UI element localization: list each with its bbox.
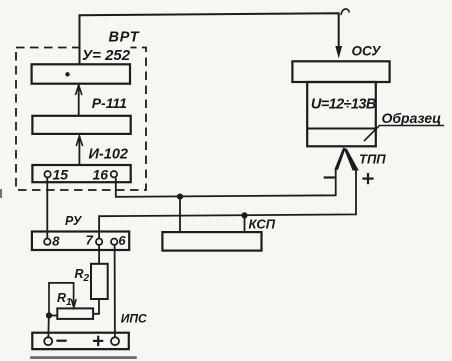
svg-text:7: 7 (86, 233, 94, 248)
thermocouple TPP left electrode (334, 148, 345, 170)
arrowhead into OCY (335, 46, 342, 59)
leader line for Образец (364, 126, 444, 142)
terminal 16 (111, 171, 117, 177)
svg-text:И-102: И-102 (89, 147, 128, 163)
scan smudge bottom (30, 356, 137, 359)
svg-text:16: 16 (93, 167, 109, 183)
wire arrow И-102 to P-111 (78, 136, 80, 165)
wire node B to KCP (244, 215, 246, 232)
wire R2 to R1 (93, 299, 99, 314)
svg-text:Образец: Образец (382, 110, 442, 126)
wire 16 to TPP minus leg (116, 170, 336, 197)
svg-text:КСП: КСП (249, 217, 276, 232)
block РУ (32, 232, 129, 251)
wire 15 to РУ 8 (46, 178, 48, 238)
wire РУ 7 to R2 (98, 245, 100, 263)
svg-text:Р-111: Р-111 (92, 95, 127, 111)
terminal 6 (111, 239, 117, 245)
wire node A to KCP (179, 197, 181, 233)
block P-111 (32, 116, 130, 134)
thermocouple TPP right electrode (343, 148, 358, 171)
block KCP recorder (162, 232, 261, 251)
scan tick left edge (0, 189, 2, 198)
wiper arm of R1 (49, 283, 74, 316)
wire РУ 7 to TPP plus leg (99, 170, 356, 238)
resistor R1 potentiometer (57, 308, 93, 319)
block ИПС power source (32, 333, 129, 349)
minus sign TPP (324, 176, 335, 178)
wire R1 left lead (49, 315, 57, 317)
squiggle at top corner (341, 9, 350, 15)
wire arrow P-111 to amplifier (78, 86, 80, 116)
junction node B (241, 212, 247, 218)
plus sign (93, 340, 103, 342)
svg-text:6: 6 (118, 233, 126, 248)
terminal 7 (96, 239, 102, 245)
block amplifier U=252 (32, 64, 130, 83)
dot inside amplifier block (65, 72, 69, 76)
svg-text:U=12÷13В: U=12÷13В (311, 96, 376, 112)
block OCY top plate (292, 61, 389, 82)
svg-text:РУ: РУ (65, 214, 83, 228)
svg-text:8: 8 (52, 233, 60, 248)
wire РУ 6 to ИПС plus (114, 245, 116, 337)
resistor R2 (91, 264, 108, 299)
svg-text:ТПП: ТПП (359, 152, 386, 167)
terminal 8 (44, 239, 50, 245)
plus sign TPP (362, 178, 373, 180)
label У=252 (81, 45, 131, 62)
ИПС box bottom heavy edge (32, 348, 129, 350)
divider line sample (308, 128, 375, 130)
terminal plus of ИПС (111, 337, 119, 345)
minus sign (56, 340, 66, 342)
wire node C to ИПС minus (47, 316, 49, 338)
wire top: U=252 box to OCY arrow (80, 13, 339, 64)
terminal minus of ИПС (44, 337, 52, 345)
svg-text:15: 15 (53, 167, 69, 183)
svg-text:ОСУ: ОСУ (352, 44, 382, 59)
svg-text:ВРТ: ВРТ (109, 30, 140, 46)
junction node C (46, 312, 52, 318)
dashed enclosure BPT (16, 48, 146, 191)
junction node A (177, 194, 183, 200)
terminal 15 (44, 171, 50, 177)
block И-102 (32, 165, 130, 182)
svg-text:ИПС: ИПС (121, 311, 147, 325)
svg-text:У= 252: У= 252 (82, 47, 131, 64)
furnace body (307, 82, 376, 146)
